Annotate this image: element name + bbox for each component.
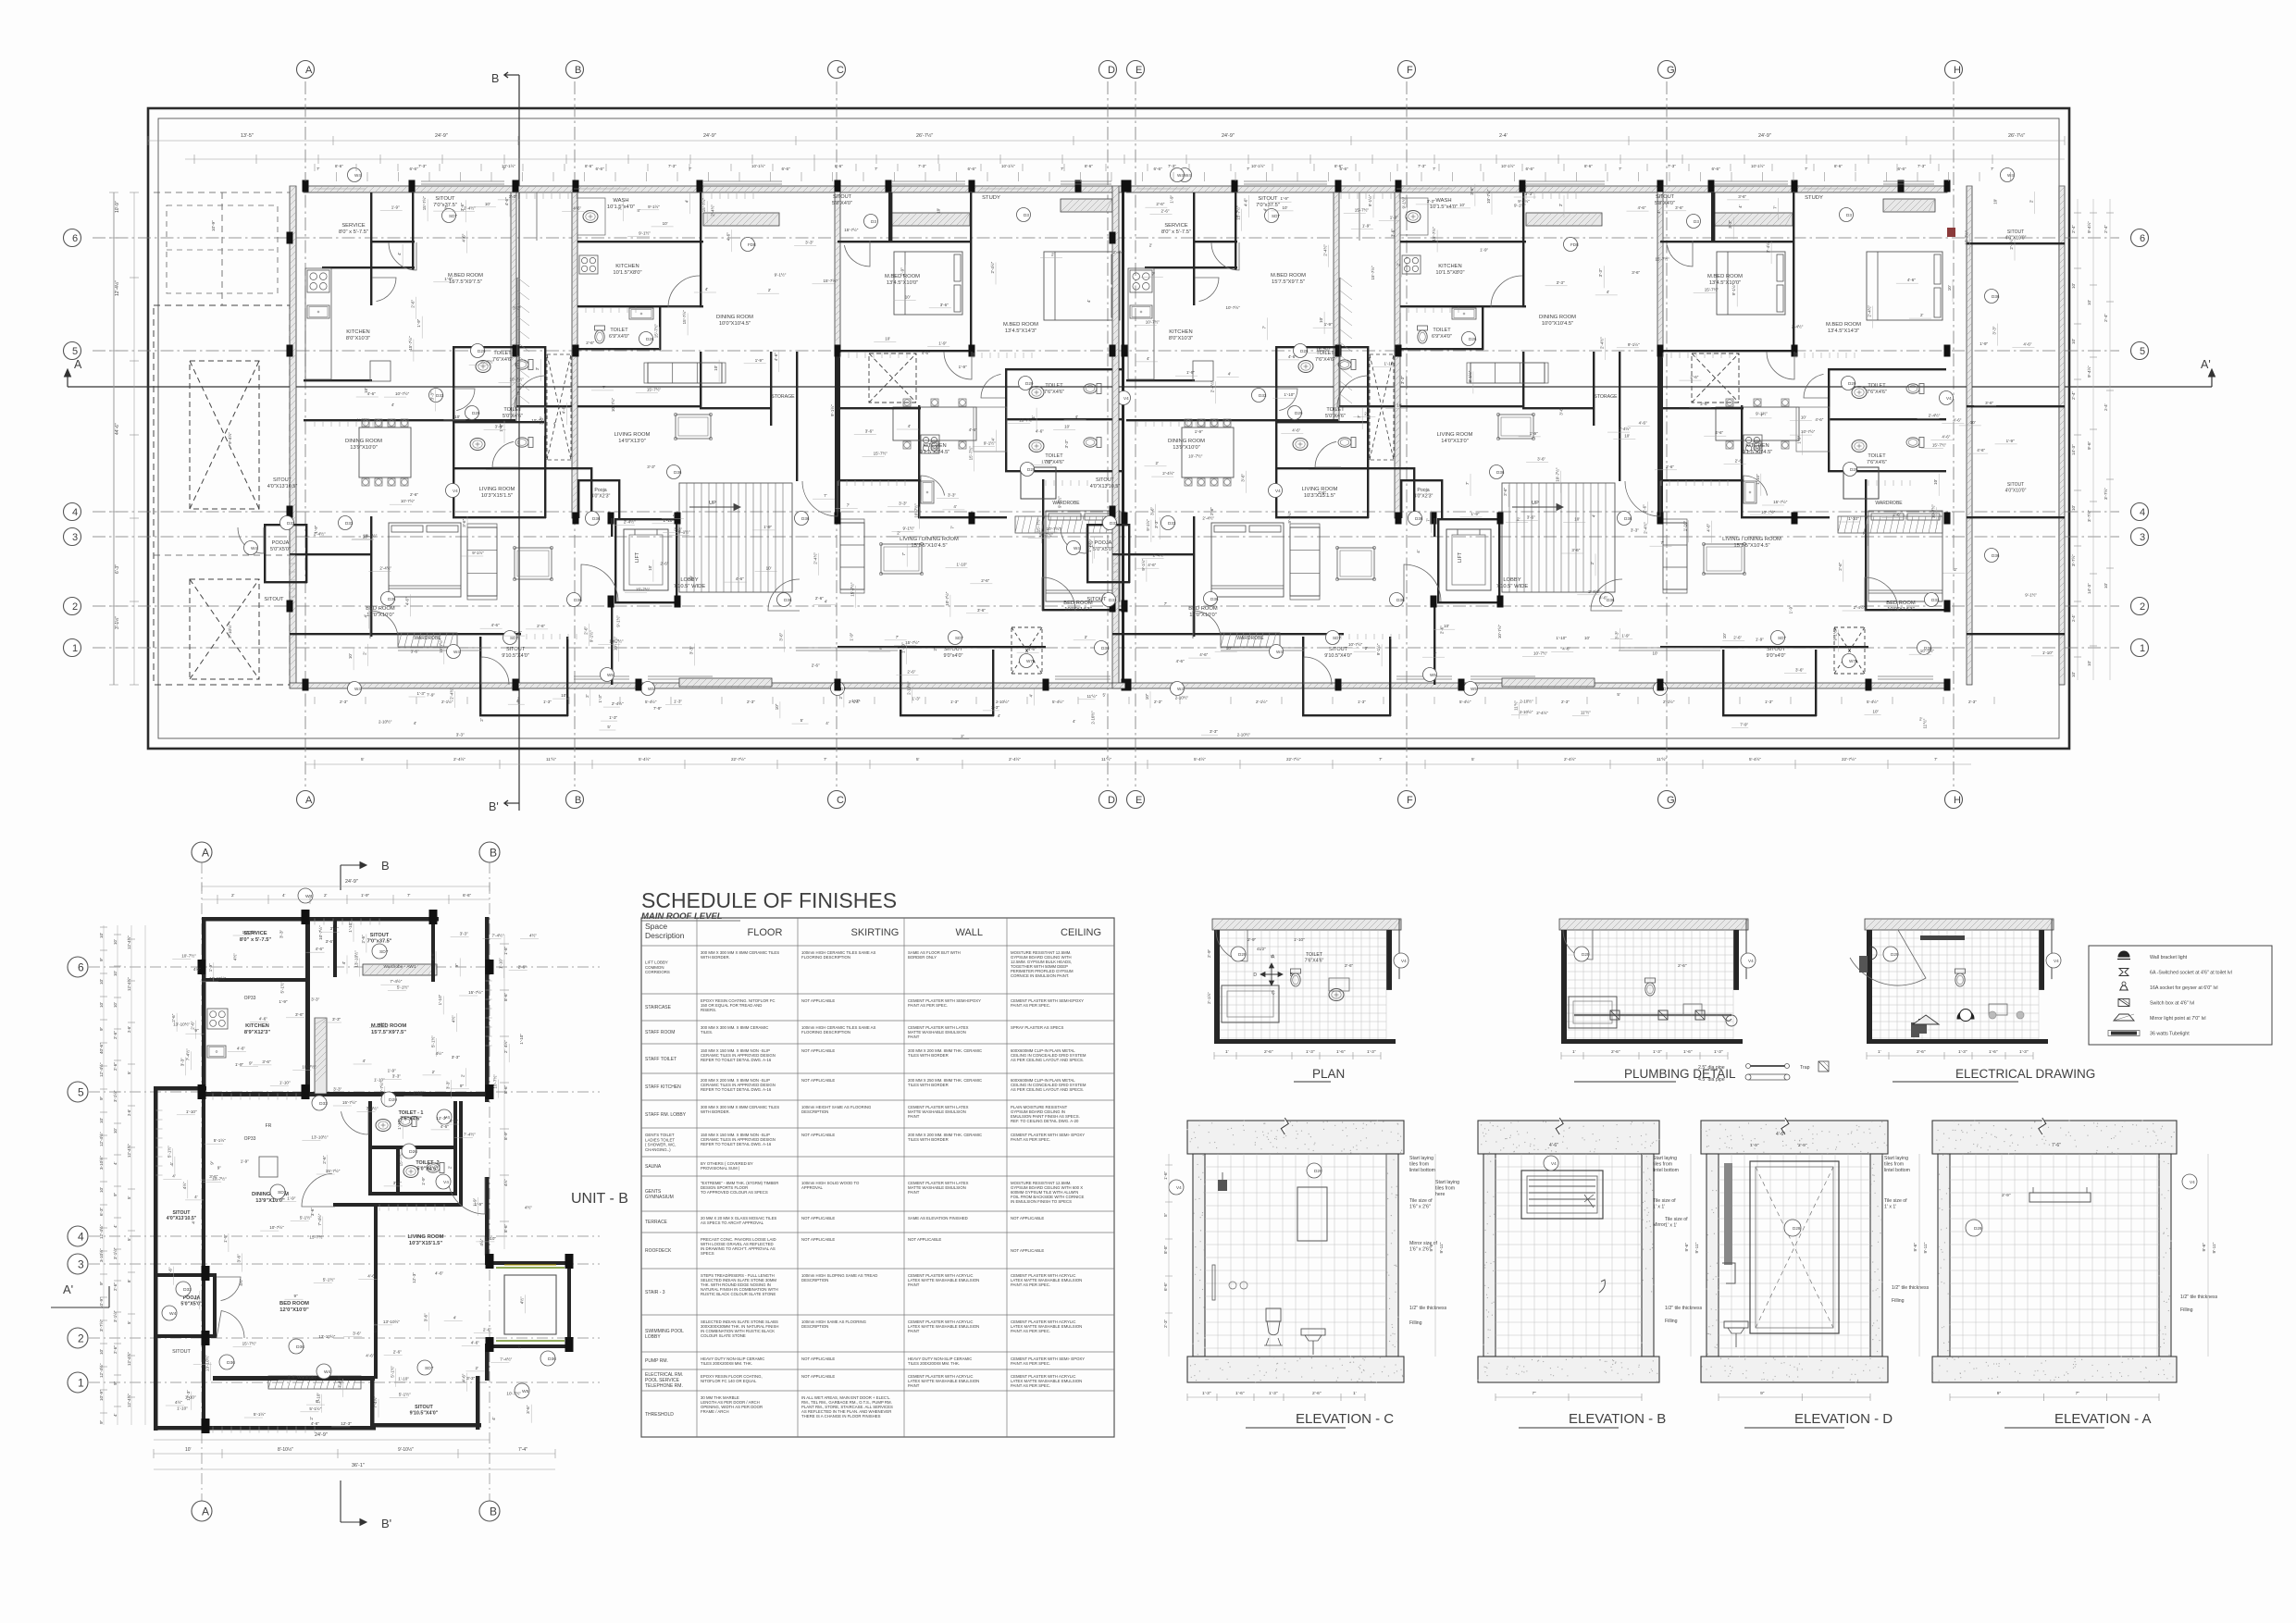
svg-text:13'-10½": 13'-10½" — [354, 950, 359, 967]
svg-text:SD7: SD7 — [278, 1190, 287, 1196]
svg-text:3: 3 — [2140, 532, 2145, 543]
svg-text:1'-10": 1'-10" — [1683, 520, 1688, 531]
svg-text:A': A' — [63, 1282, 73, 1296]
svg-text:D33: D33 — [1109, 598, 1117, 602]
svg-text:15'-7½": 15'-7½" — [824, 278, 838, 283]
svg-text:9'-11": 9'-11" — [1439, 1242, 1445, 1253]
elevation D — [1701, 1121, 1888, 1154]
svg-text:4'-6": 4'-6" — [462, 233, 466, 242]
window sills bottom wall — [574, 678, 629, 680]
svg-text:FD8: FD8 — [1570, 242, 1579, 247]
svg-text:3'-3": 3'-3" — [1631, 527, 1639, 532]
svg-text:SD7: SD7 — [1272, 214, 1280, 218]
dining B1 walls — [700, 192, 701, 307]
svg-text:D36: D36 — [548, 1357, 556, 1362]
svg-text:9": 9" — [99, 1026, 104, 1031]
svg-text:1'-8": 1'-8" — [503, 946, 508, 955]
svg-text:10': 10' — [2071, 505, 2076, 511]
svg-text:D36: D36 — [1607, 598, 1615, 602]
wash counter — [577, 198, 605, 235]
svg-text:6'-3": 6'-3" — [99, 1207, 104, 1216]
svg-text:NOT APPLICABLE: NOT APPLICABLE — [801, 1374, 835, 1379]
svg-text:Trap: Trap — [1800, 1065, 1810, 1071]
svg-text:1'-3": 1'-3" — [1714, 1049, 1723, 1055]
svg-text:3'-6": 3'-6" — [1795, 667, 1804, 672]
svg-text:4½": 4½" — [175, 1399, 182, 1405]
svg-text:9": 9" — [454, 963, 459, 968]
svg-text:9'-1½": 9'-1½" — [2025, 592, 2037, 598]
svg-text:10': 10' — [113, 939, 118, 945]
svg-text:9'-1½": 9'-1½" — [1518, 198, 1530, 204]
svg-text:4: 4 — [78, 1230, 84, 1243]
svg-text:1'-3": 1'-3" — [950, 700, 959, 704]
svg-text:9": 9" — [294, 1294, 299, 1298]
svg-text:10'-7½": 10'-7½" — [1496, 624, 1502, 638]
svg-text:SAUNA: SAUNA — [645, 1164, 662, 1170]
svg-text:LIVING ROOM14'0"X13'0": LIVING ROOM14'0"X13'0" — [1437, 432, 1473, 444]
svg-text:7'-4½": 7'-4½" — [366, 1106, 379, 1111]
svg-text:4': 4' — [444, 205, 448, 210]
svg-text:UP: UP — [1532, 501, 1539, 506]
section B marker bottom — [340, 1481, 341, 1522]
svg-text:2': 2' — [768, 288, 772, 292]
plumbing detail — [1559, 919, 1748, 930]
svg-text:5': 5' — [361, 757, 365, 762]
svg-text:7': 7' — [949, 526, 954, 529]
svg-text:7': 7' — [1357, 415, 1361, 418]
svg-text:2': 2' — [933, 648, 937, 651]
svg-text:9'-1½": 9'-1½" — [1145, 519, 1150, 531]
svg-text:5: 5 — [72, 346, 78, 357]
svg-text:3'-7½": 3'-7½" — [98, 1319, 104, 1332]
svg-text:10': 10' — [1064, 425, 1070, 429]
svg-text:3'-6": 3'-6" — [865, 429, 874, 434]
svg-text:4': 4' — [908, 424, 912, 428]
svg-text:4': 4' — [705, 287, 709, 291]
svg-text:15'-7½": 15'-7½" — [407, 336, 413, 351]
svg-text:2': 2' — [1085, 635, 1088, 639]
svg-text:10': 10' — [348, 653, 353, 659]
svg-text:15'-7½": 15'-7½" — [905, 639, 920, 645]
svg-text:15'-7½": 15'-7½" — [1773, 499, 1788, 504]
mbed room A walls — [1339, 405, 1524, 407]
dining table A — [359, 427, 411, 477]
living A sofa — [467, 527, 497, 596]
svg-text:600X600MM CLIP-IN PLAIN METALC: 600X600MM CLIP-IN PLAIN METALCEILING IN … — [1011, 1078, 1086, 1092]
svg-text:1'-10": 1'-10" — [1756, 474, 1760, 485]
pooja B2 — [1843, 467, 1879, 499]
svg-text:10'-7½": 10'-7½" — [1047, 526, 1061, 531]
svg-text:2'-6": 2'-6" — [1156, 202, 1164, 206]
svg-text:SCHEDULE OF FINISHES: SCHEDULE OF FINISHES — [641, 888, 897, 912]
svg-text:3: 3 — [78, 1258, 84, 1270]
sitout bottom B2 — [1722, 650, 1724, 716]
svg-text:10': 10' — [2071, 283, 2076, 289]
svg-text:1/2" tile thickness: 1/2" tile thickness — [1665, 1306, 1703, 1311]
svg-text:5'-4½": 5'-4½" — [639, 756, 651, 762]
xshaft B2 — [869, 353, 916, 403]
svg-text:4'-6": 4'-6" — [1815, 417, 1823, 422]
kitchen strip walls — [1334, 192, 1339, 421]
svg-text:SPRAY PLASTER AS SPECS: SPRAY PLASTER AS SPECS — [1011, 1025, 1064, 1030]
svg-text:10'-7½": 10'-7½" — [1485, 189, 1491, 204]
svg-text:2': 2' — [535, 367, 540, 371]
svg-text:7': 7' — [1433, 167, 1436, 171]
svg-text:5': 5' — [1103, 692, 1107, 697]
svg-text:10': 10' — [485, 202, 490, 206]
svg-text:12'-4½": 12'-4½" — [98, 1363, 104, 1378]
hatch bands bottom wall — [679, 678, 772, 687]
svg-text:2': 2' — [1396, 263, 1401, 266]
svg-text:10'-1½": 10'-1½" — [1501, 164, 1515, 168]
svg-text:4'-6": 4'-6" — [1199, 652, 1208, 657]
svg-text:10'-1½": 10'-1½" — [1751, 164, 1765, 168]
svg-text:9'-1½": 9'-1½" — [1467, 370, 1472, 382]
svg-text:SITOUT5'8"X4'0": SITOUT5'8"X4'0" — [1655, 194, 1675, 206]
svg-text:DINING ROOM10'0"X10'4.5": DINING ROOM10'0"X10'4.5" — [1539, 315, 1576, 327]
svg-text:5': 5' — [127, 1072, 131, 1074]
columns — [287, 232, 293, 244]
svg-text:9": 9" — [194, 1028, 199, 1033]
svg-text:2'-6": 2'-6" — [113, 1345, 118, 1354]
svg-text:6: 6 — [78, 960, 84, 973]
svg-text:15'-7½": 15'-7½" — [1370, 266, 1375, 280]
shaft W76 — [1011, 627, 1042, 674]
svg-text:9'-1½": 9'-1½" — [1628, 341, 1640, 347]
svg-text:14'-3": 14'-3" — [2087, 583, 2091, 594]
svg-text:2': 2' — [2029, 200, 2034, 204]
svg-text:D36: D36 — [296, 1344, 304, 1350]
doors — [389, 242, 416, 270]
svg-text:1'-10": 1'-10" — [499, 958, 503, 969]
svg-text:1'-9": 1'-9" — [1789, 605, 1793, 613]
svg-text:12'-4½": 12'-4½" — [98, 1132, 104, 1146]
svg-text:5'-1½": 5'-1½" — [323, 1277, 335, 1282]
lift core — [614, 518, 616, 603]
svg-text:2'-6": 2'-6" — [411, 299, 416, 307]
bottom inner dim row — [314, 697, 316, 704]
svg-text:13'-10½": 13'-10½" — [311, 1134, 328, 1139]
svg-text:D3: D3 — [1694, 219, 1699, 224]
doors — [1211, 242, 1239, 270]
svg-text:10': 10' — [1722, 633, 1727, 638]
svg-text:UP: UP — [709, 501, 716, 506]
svg-text:9'-4½": 9'-4½" — [2086, 221, 2091, 233]
svg-text:15'-7½": 15'-7½" — [326, 1168, 341, 1173]
electrical drawing — [1865, 919, 2054, 930]
svg-text:1'-9": 1'-9" — [1324, 322, 1333, 327]
unit B2 walls — [1657, 186, 1663, 353]
pipe run — [1574, 1014, 1731, 1016]
svg-text:LIVING ROOM10'3"X15'1.5": LIVING ROOM10'3"X15'1.5" — [479, 487, 515, 499]
svg-text:9'-1½": 9'-1½" — [775, 271, 787, 277]
svg-text:NOT APPLICABLE: NOT APPLICABLE — [801, 1048, 835, 1053]
svg-text:KITCHEN8'0"X10'3": KITCHEN8'0"X10'3" — [1169, 329, 1193, 341]
svg-text:7': 7' — [1379, 757, 1383, 762]
svg-text:3'-6": 3'-6" — [1537, 457, 1545, 462]
svg-text:NOT APPLICABLE: NOT APPLICABLE — [1011, 1248, 1044, 1253]
bed A2 — [1211, 523, 1284, 597]
svg-text:4'-6": 4'-6" — [561, 405, 565, 414]
svg-text:CEILING: CEILING — [1061, 927, 1101, 938]
svg-text:16A socket for geyser at 6'0": 16A socket for geyser at 6'0" lvl — [2150, 985, 2218, 991]
svg-text:13'-10½": 13'-10½" — [318, 1333, 335, 1339]
svg-text:4½": 4½" — [503, 1179, 508, 1186]
svg-text:2'-6": 2'-6" — [1470, 186, 1474, 194]
svg-text:9": 9" — [210, 1160, 215, 1165]
svg-text:4': 4' — [684, 200, 689, 204]
svg-text:10': 10' — [1283, 205, 1288, 210]
svg-text:4': 4' — [1607, 290, 1610, 294]
svg-text:15'-7½": 15'-7½" — [438, 638, 443, 653]
toilets B2 — [1828, 368, 1830, 472]
svg-text:2'-3": 2'-3" — [1154, 700, 1162, 704]
svg-text:10'-7½": 10'-7½" — [1188, 453, 1203, 459]
svg-text:1'-9": 1'-9" — [1756, 638, 1764, 642]
lobby walls — [611, 603, 613, 685]
svg-text:2'-6": 2'-6" — [171, 1013, 176, 1022]
svg-text:11'½": 11'½" — [1657, 756, 1667, 762]
electrical dims + title — [1867, 1055, 2033, 1057]
svg-text:3'-6": 3'-6" — [295, 1012, 304, 1017]
svg-text:4½": 4½" — [181, 1182, 187, 1189]
svg-text:2'-4½": 2'-4½" — [709, 204, 714, 217]
svg-text:W5: W5 — [1471, 687, 1477, 691]
svg-text:1'-3": 1'-3" — [912, 696, 920, 700]
svg-text:D29: D29 — [1891, 952, 1899, 957]
mbed walls — [431, 917, 435, 982]
svg-text:V4: V4 — [1123, 396, 1129, 401]
svg-text:1'-9": 1'-9" — [416, 318, 421, 327]
svg-text:1'-3": 1'-3" — [1765, 700, 1773, 704]
svg-text:1'-9": 1'-9" — [900, 267, 904, 276]
svg-text:2'-6": 2'-6" — [1503, 488, 1508, 496]
svg-text:7': 7' — [1247, 167, 1250, 171]
svg-text:7'-4½": 7'-4½" — [337, 1376, 342, 1388]
svg-text:5': 5' — [800, 718, 804, 723]
svg-text:2'-4½": 2'-4½" — [2008, 237, 2014, 249]
svg-text:8'-6": 8'-6" — [1334, 164, 1343, 168]
columns — [1110, 232, 1116, 244]
svg-text:STAFF RM. LOBBY: STAFF RM. LOBBY — [645, 1112, 687, 1118]
svg-text:KITCHEN9'1.5"X8'4.5": KITCHEN9'1.5"X8'4.5" — [1743, 443, 1773, 455]
svg-text:4½": 4½" — [238, 1278, 243, 1285]
svg-text:10': 10' — [648, 565, 652, 571]
svg-text:1': 1' — [1572, 1049, 1576, 1055]
svg-text:12'-4½": 12'-4½" — [127, 1144, 131, 1158]
svg-text:2'-4½": 2'-4½" — [813, 552, 818, 564]
svg-text:BED ROOM10'0"X14'3": BED ROOM10'0"X14'3" — [1886, 601, 1916, 613]
svg-text:10'-7½": 10'-7½" — [395, 390, 410, 396]
svg-text:4'-6": 4'-6" — [922, 351, 930, 355]
svg-text:2'-6": 2'-6" — [410, 492, 418, 497]
svg-text:V4: V4 — [1275, 489, 1281, 493]
svg-text:Tile size of1'6" x 2'6": Tile size of1'6" x 2'6" — [1409, 1198, 1433, 1210]
svg-text:4': 4' — [363, 614, 367, 618]
svg-text:TERRACE: TERRACE — [645, 1220, 668, 1225]
svg-text:2': 2' — [1954, 567, 1957, 572]
terrace left dashed area — [154, 305, 290, 685]
svg-text:10': 10' — [1319, 317, 1323, 323]
svg-text:3'-3": 3'-3" — [466, 1376, 476, 1381]
svg-text:D: D — [1108, 65, 1115, 76]
pooja B2 — [1021, 467, 1056, 499]
svg-text:1'-3": 1'-3" — [674, 699, 682, 703]
svg-text:3'-6": 3'-6" — [450, 1119, 459, 1123]
svg-text:9": 9" — [460, 1084, 465, 1088]
svg-text:7': 7' — [901, 552, 906, 556]
svg-text:7'-9": 7'-9" — [1740, 723, 1748, 727]
svg-text:D29: D29 — [1848, 381, 1856, 386]
svg-text:B': B' — [489, 800, 499, 813]
svg-text:4: 4 — [2140, 507, 2145, 518]
svg-text:2-10½": 2-10½" — [1175, 694, 1189, 700]
svg-text:9'-1½": 9'-1½" — [1731, 283, 1736, 295]
svg-text:3-10½": 3-10½" — [98, 1248, 104, 1262]
svg-text:9'-10½": 9'-10½" — [398, 1446, 414, 1453]
extra closet lines — [516, 278, 518, 405]
svg-text:4½": 4½" — [525, 1205, 532, 1210]
svg-text:4'-6": 4'-6" — [1907, 278, 1916, 282]
wardrobe band A — [398, 633, 457, 647]
vent shaft toilets A — [1370, 354, 1394, 460]
svg-text:1'-9": 1'-9" — [279, 999, 288, 1004]
section line B-B — [518, 75, 520, 811]
svg-text:SITOUT5'8"X4'0": SITOUT5'8"X4'0" — [832, 194, 852, 206]
svg-text:W4: W4 — [453, 650, 460, 654]
toilet cluster A — [453, 346, 454, 518]
svg-text:4': 4' — [998, 713, 1001, 718]
svg-text:2'-4½": 2'-4½" — [1588, 588, 1600, 594]
svg-text:3'-6": 3'-6" — [430, 952, 435, 961]
svg-text:2-10½": 2-10½" — [1520, 698, 1533, 703]
bed A2 — [389, 523, 461, 597]
svg-text:7'-4½": 7'-4½" — [316, 1213, 322, 1225]
svg-text:1: 1 — [72, 643, 78, 654]
svg-text:TOILET6'9"X4'0": TOILET6'9"X4'0" — [1432, 328, 1452, 340]
svg-text:3'-6": 3'-6" — [460, 203, 465, 211]
svg-text:3'-3": 3'-3" — [333, 1087, 342, 1092]
svg-text:1'-9": 1'-9" — [938, 341, 947, 346]
svg-text:4'-6": 4'-6" — [405, 597, 410, 605]
svg-text:W4: W4 — [1185, 173, 1191, 178]
svg-text:V4: V4 — [1748, 959, 1754, 963]
svg-text:1'-3": 1'-3" — [598, 694, 602, 702]
svg-text:5: 5 — [2140, 346, 2145, 357]
svg-text:1'-9": 1'-9" — [473, 1197, 478, 1207]
svg-text:8'-6": 8'-6" — [503, 992, 508, 1001]
svg-text:5'-1½": 5'-1½" — [309, 1406, 321, 1411]
dining table B2 — [893, 407, 976, 440]
svg-text:2-6': 2-6' — [127, 1109, 131, 1116]
svg-text:150 MM X 150 MM. X 8MM NON -SL: 150 MM X 150 MM. X 8MM NON -SLIPCERAMIC … — [701, 1048, 776, 1062]
svg-text:4': 4' — [516, 699, 520, 703]
svg-text:1'-9": 1'-9" — [959, 365, 967, 369]
svg-text:5'-1½": 5'-1½" — [389, 1365, 394, 1377]
svg-text:9": 9" — [99, 1419, 104, 1424]
svg-text:2'-4½": 2'-4½" — [1765, 241, 1770, 253]
svg-text:LIVING ROOM14'0"X13'0": LIVING ROOM14'0"X13'0" — [614, 432, 651, 444]
svg-text:3'-3": 3'-3" — [1557, 280, 1565, 285]
svg-text:2'-6": 2'-6" — [1345, 963, 1354, 968]
svg-text:B': B' — [381, 1517, 391, 1530]
svg-text:3'-3": 3'-3" — [1992, 326, 1996, 334]
svg-text:D36: D36 — [1496, 470, 1505, 475]
svg-text:10'-7½": 10'-7½" — [317, 925, 323, 940]
svg-text:9": 9" — [249, 1060, 254, 1065]
svg-text:5'-4½": 5'-4½" — [1052, 700, 1064, 704]
svg-text:D36: D36 — [784, 598, 792, 602]
svg-text:2'-6": 2'-6" — [660, 561, 668, 565]
svg-text:2'-6": 2'-6" — [1264, 1049, 1273, 1055]
svg-text:D36: D36 — [674, 470, 682, 475]
svg-text:13'-10½": 13'-10½" — [173, 1022, 190, 1027]
svg-text:4'-6": 4'-6" — [1599, 596, 1607, 601]
toilet walls — [368, 1101, 372, 1196]
svg-text:3'-6": 3'-6" — [1985, 401, 1993, 405]
svg-text:5'-1½": 5'-1½" — [429, 1035, 435, 1047]
svg-text:M.BED ROOM13'4.5"X14'3": M.BED ROOM13'4.5"X14'3" — [1003, 322, 1038, 334]
svg-text:H: H — [1954, 795, 1961, 806]
svg-text:8'-6": 8'-6" — [335, 164, 343, 168]
svg-text:STUDY: STUDY — [982, 195, 1000, 201]
plan detail arrows cross — [1260, 973, 1283, 975]
svg-text:B: B — [575, 795, 581, 806]
window sills bottom wall — [1396, 678, 1452, 680]
svg-text:10': 10' — [454, 415, 460, 419]
svg-text:2'-1½": 2'-1½" — [1663, 700, 1675, 704]
svg-text:2': 2' — [1433, 651, 1437, 656]
svg-text:4': 4' — [172, 1174, 176, 1179]
svg-text:NOT APPLICABLE: NOT APPLICABLE — [1011, 1216, 1044, 1220]
svg-text:2': 2' — [503, 1050, 508, 1054]
svg-text:2'-9": 2'-9" — [1207, 948, 1211, 958]
svg-text:12'-4½": 12'-4½" — [127, 1394, 131, 1407]
svg-text:2': 2' — [1149, 243, 1153, 248]
unit B2 walls — [835, 186, 840, 353]
svg-text:26'-7½": 26'-7½" — [2008, 132, 2025, 139]
kitchen B2 — [918, 405, 920, 518]
svg-text:2'-1½": 2'-1½" — [1206, 992, 1211, 1004]
svg-text:KITCHEN8'0"X10'3": KITCHEN8'0"X10'3" — [346, 329, 370, 341]
svg-text:2'-6": 2'-6" — [361, 935, 366, 944]
svg-text:10'-7½": 10'-7½" — [1533, 650, 1548, 656]
svg-text:4': 4' — [879, 646, 883, 650]
svg-text:1'-9": 1'-9" — [444, 277, 453, 281]
svg-text:NOT APPLICABLE: NOT APPLICABLE — [801, 1216, 835, 1220]
svg-text:3'-3": 3'-3" — [991, 705, 999, 710]
bottom dim rows — [305, 763, 1971, 765]
walls around living/bed A — [1193, 516, 1195, 637]
left dim columns — [103, 925, 105, 1425]
svg-text:10': 10' — [1801, 415, 1806, 420]
exterior walls top band — [304, 186, 1124, 192]
svg-text:1'-10": 1'-10" — [485, 1236, 496, 1241]
svg-text:STAFF KITCHEN: STAFF KITCHEN — [645, 1084, 681, 1090]
living B1 sofa — [648, 363, 722, 383]
svg-text:2-4': 2-4' — [2104, 403, 2108, 411]
toilet cluster A — [1275, 346, 1277, 518]
svg-text:7'-3": 7'-3" — [1168, 164, 1176, 168]
svg-text:4'-6": 4'-6" — [969, 427, 977, 432]
svg-text:D36: D36 — [1415, 516, 1423, 521]
svg-text:1'-10": 1'-10" — [413, 1090, 424, 1095]
svg-text:4'-6": 4'-6" — [366, 1354, 375, 1358]
svg-text:5'-4½": 5'-4½" — [1459, 700, 1471, 704]
sitout bottom B2 — [900, 650, 901, 716]
svg-text:1'-9": 1'-9" — [1281, 196, 1289, 201]
svg-text:10'-7½": 10'-7½" — [610, 397, 615, 412]
